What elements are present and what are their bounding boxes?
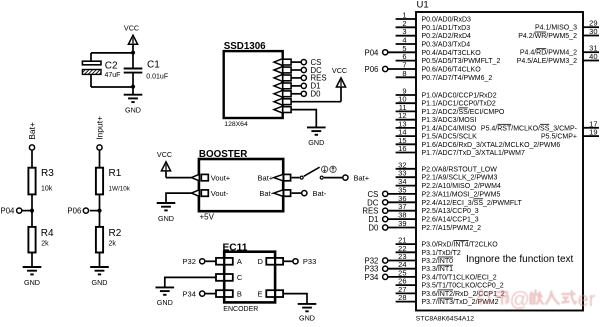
svg-text:er: er [578,289,596,311]
pin 14 P1.5/ADC5/SCLK [396,128,477,141]
svg-text:39: 39 [398,219,406,228]
ground GND (EC11 left) [156,287,175,307]
svg-text:D0: D0 [368,224,379,233]
module BOOSTER box [199,149,283,221]
svg-text:R1: R1 [109,168,122,179]
svg-text:R4: R4 [41,228,54,239]
capacitor C2 [82,60,120,79]
pin 27 P3.6/INT2/RxD_2/CCP1_2 [396,285,505,298]
pin 32 P2.0/A8/RSTOUT_LOW [396,160,498,173]
terminal Input+ [94,116,104,150]
svg-text:ENCODER: ENCODER [223,306,258,313]
display SSD1306 box [224,41,283,128]
svg-text:P4.4/RD/PWM4_2: P4.4/RD/PWM4_2 [520,50,577,57]
svg-text:C2: C2 [105,60,118,71]
svg-text:R2: R2 [109,228,122,239]
pin 4 (SSD1306) [274,82,291,89]
encoder EC11 labels [223,242,259,313]
wire pin C to ground [165,277,216,287]
pin 2 P0.1/AD1/TxD3 [396,19,471,32]
svg-text:E: E [258,289,263,298]
svg-text:U1: U1 [417,0,429,11]
terminal P04 [1,206,22,215]
wire switch to Bat+ terminal [324,177,342,179]
wire rail bottom [91,86,133,88]
net label P04 (U1 side) [365,48,380,57]
pin 6 P0.5/AD5/T3/PWMFLT_2 [396,52,501,65]
terminal P06 [67,206,88,215]
svg-text:128X64: 128X64 [224,121,248,128]
svg-text:GND: GND [299,313,315,322]
terminal P33 [293,257,316,266]
svg-text:VCC: VCC [332,66,347,75]
net label D1 (SSD1306 side) [291,82,320,91]
wire SSD1306 pin7 to GND [291,110,316,128]
net label RES (U1 side) [362,207,378,216]
pin 4 P0.3/AD3/TxD4 [396,36,471,49]
wire Vout- to ground [166,193,193,203]
svg-text:VCC: VCC [124,24,139,33]
wire R1 to node [99,194,101,210]
pin 2 (SSD1306) [274,67,291,74]
svg-text:P1.3/ADC3/MOSI: P1.3/ADC3/MOSI [422,117,477,124]
svg-text:P04: P04 [365,48,380,57]
svg-text:P0.3/AD3/TxD4: P0.3/AD3/TxD4 [422,42,471,49]
pin 35 P2.3/A11/MOSI_2/PWM5 [383,185,501,198]
svg-text:P34: P34 [365,273,380,282]
svg-text:C: C [237,273,243,282]
svg-text:19: 19 [589,128,597,137]
svg-text:40: 40 [589,52,597,61]
note text [466,254,574,265]
pin 6 (SSD1306) [274,98,291,105]
svg-text:P1.7/ADC7/TxD_3/XTAL1/PWM7: P1.7/ADC7/TxD_3/XTAL1/PWM7 [422,150,525,157]
pin 38 P2.6/A14/CCP1_3 [383,211,479,224]
svg-text:Input+: Input+ [94,116,104,140]
pin Bat+ (BOOSTER) [258,173,291,182]
svg-text:R3: R3 [41,168,54,179]
pin Vout+ (BOOSTER) [192,173,231,182]
svg-text:P2.2/A10/MISO_2/PWM4: P2.2/A10/MISO_2/PWM4 [422,183,501,190]
wire C2 top lead [90,53,92,61]
wire Input+ to R1 [99,151,101,168]
wire P32 to pin A [205,260,216,262]
node GND junction [131,85,135,89]
pin 30 P4.2/WR/PWM5_2 [518,27,599,40]
svg-text:+5V: +5V [200,212,215,221]
pin 3 (SSD1306) [274,74,291,81]
svg-text:STC8A8K64S4A12: STC8A8K64S4A12 [416,315,474,322]
svg-text:GND: GND [308,138,324,147]
resistor R2 [96,227,122,253]
pin 10 P1.1/ADC1/CCP0/TxD2 [396,95,496,108]
wire P34 to pin B [205,293,216,295]
resistor R4 [28,227,54,253]
net label P34 (U1 side) [365,273,380,282]
pin 1 P0.0/AD0/RxD3 [396,11,471,24]
svg-text:P1.5/ADC5/SCLK: P1.5/ADC5/SCLK [422,134,478,141]
svg-text:47uF: 47uF [105,72,121,79]
wire VCC to Vout+ [166,177,193,179]
wire C2 bottom lead [90,74,92,87]
net label RES (SSD1306 side) [291,74,326,83]
wire Bat- pin to terminal [292,192,302,194]
svg-text:P0.4/AD4/T3CLKO: P0.4/AD4/T3CLKO [422,50,482,57]
svg-text:P4.1/MISO_3: P4.1/MISO_3 [535,25,577,32]
wire node to R4 [31,211,33,227]
svg-text:P04: P04 [1,206,16,215]
svg-text:P06: P06 [67,206,81,215]
svg-text:P3.4/T0/T1CLKO/ECI_2: P3.4/T0/T1CLKO/ECI_2 [422,274,497,281]
wire pin D to P33 [283,260,292,262]
power VCC (decoupling rail) [124,24,139,53]
wire Bat+ pin to switch [292,177,300,179]
IC U1 part number [416,315,474,322]
svg-text:P0.0/AD0/RxD3: P0.0/AD0/RxD3 [422,17,472,24]
svg-text:P2.3/A11/MOSI_2/PWM5: P2.3/A11/MOSI_2/PWM5 [422,191,501,198]
net label DC (SSD1306 side) [291,66,322,75]
pin 25 P3.4/T0/T1CLKO/ECI_2 [383,268,497,281]
pin 7 (SSD1306) [274,106,291,113]
resistor R3 [28,168,54,195]
pin 33 P2.1/A9/SCLK_2/PWM3 [396,169,498,182]
svg-text:P2.7/A15/PWM2_2: P2.7/A15/PWM2_2 [422,225,482,232]
pin 21 P3.0/RxD/INT4/T2CLKO [396,236,499,249]
terminal P32 [183,257,205,266]
svg-text:Vout+: Vout+ [211,173,231,182]
pin 1 (SSD1306) [274,59,291,66]
svg-text:P32: P32 [183,257,196,266]
pin 5 (SSD1306) [274,90,291,97]
wire R4 to ground [31,253,33,268]
pin 31 P4.4/RD/PWM4_2 [520,44,599,57]
svg-text:30: 30 [589,27,597,36]
svg-text:BOOSTER: BOOSTER [199,149,247,160]
svg-text:GND: GND [157,298,173,307]
net label CS (SSD1306 side) [291,58,321,67]
wire node to R2 [99,211,101,227]
ground GND (SSD1306) [307,127,326,147]
svg-text:P4.5/ALE/PWM3_2: P4.5/ALE/PWM3_2 [517,58,577,65]
svg-text:P0.2/AD2/RxD4: P0.2/AD2/RxD4 [422,33,472,40]
svg-text:P3.5/T1/T0CLKO/CCP0_2: P3.5/T1/T0CLKO/CCP0_2 [422,283,504,290]
terminal Bat+ [27,122,37,150]
wire P04 to node [22,210,32,212]
node P04 junction [30,209,34,213]
pin 26 P3.5/T1/T0CLKO/CCP0_2 [396,277,504,290]
svg-text:10k: 10k [41,186,53,193]
switch SW (power toggle) [300,166,336,179]
pin C (EC11) [216,273,243,282]
svg-text:GND: GND [158,214,174,223]
svg-text:1W/10k: 1W/10k [109,186,131,193]
pin 37 P2.5/A13/CCP0_3 [383,202,479,215]
net label D0 (SSD1306 side) [291,90,321,99]
svg-text:SSD1306: SSD1306 [224,41,266,52]
ground GND (R2) [90,267,109,287]
wire R3 to node [31,194,33,210]
net label DC (U1 side) [367,198,379,207]
svg-text:VCC: VCC [157,150,172,159]
svg-text:EC11: EC11 [223,242,248,253]
pin 19 P5.5/CMP+ [541,128,599,141]
pin 24 P3.3/INT1 [383,260,454,273]
svg-text:P1.1/ADC1/CCP0/TxD2: P1.1/ADC1/CCP0/TxD2 [422,101,496,108]
svg-text:P3.2/INT0: P3.2/INT0 [422,258,454,265]
wire rail top [91,52,133,54]
svg-text:2k: 2k [41,241,49,248]
svg-text:P0.6/AD6/T4CLKO: P0.6/AD6/T4CLKO [422,67,482,74]
pin E (EC11) [258,289,284,298]
pin 23 P3.2/INT0 [383,252,454,265]
svg-text:Bat+: Bat+ [258,173,274,182]
terminal Bat+ (output) [343,173,370,182]
svg-text:Bat+: Bat+ [354,173,370,182]
power VCC (SSD1306) [332,66,347,102]
svg-text:C1: C1 [147,60,160,71]
svg-text:P33: P33 [303,257,316,266]
svg-text:P5.4/RST/MCLKO/SS_3/CMP-: P5.4/RST/MCLKO/SS_3/CMP- [481,125,578,132]
ground GND (R4) [23,267,42,287]
pin 13 P1.4/ADC4/MISO [396,119,477,132]
wire pin E to ground [283,294,307,304]
watermark [478,289,596,311]
pin 17 P5.4/RST/MCLKO/SS_3/CMP- [481,119,599,132]
power VCC (BOOSTER) [157,150,172,178]
svg-text:P4.2/WR/PWM5_2: P4.2/WR/PWM5_2 [518,33,577,40]
svg-text:P2.0/A8/RSTOUT_LOW: P2.0/A8/RSTOUT_LOW [422,166,498,173]
svg-text:P06: P06 [365,65,379,74]
pin B (EC11) [216,289,242,298]
wire SSD1306 pin6 to VCC [291,101,341,103]
pin 8 P0.7/AD7/T4/PWM6_2 [396,69,493,82]
svg-text:P34: P34 [183,289,196,298]
pin Bat- (BOOSTER) [259,189,290,198]
pin 5 P0.4/AD4/T3CLKO [383,44,482,57]
svg-text:P0.1/AD1/TxD3: P0.1/AD1/TxD3 [422,25,471,32]
IC U1 box [416,0,583,310]
svg-text:16: 16 [398,144,406,153]
pin 16 P1.7/ADC7/TxD_3/XTAL1/PWM7 [396,144,525,157]
svg-text:8: 8 [402,69,406,78]
terminal P34 [183,289,205,298]
svg-text:Bat-: Bat- [259,189,273,198]
net label D0 (U1 side) [368,224,379,233]
svg-text:P5.5/CMP+: P5.5/CMP+ [541,134,577,141]
terminal Bat- (output) [302,189,327,198]
svg-text:GND: GND [92,278,108,287]
svg-text:D0: D0 [311,90,322,99]
node rail/C1 junction [131,51,135,55]
svg-text:P0.7/AD7/T4/PWM6_2: P0.7/AD7/T4/PWM6_2 [422,75,493,82]
net label P33 (U1 side) [365,265,379,274]
svg-text:P3.3/INT1: P3.3/INT1 [422,266,454,273]
svg-text:P1.4/ADC4/MISO: P1.4/ADC4/MISO [422,125,477,132]
wire P06 to node [90,210,100,212]
pin Vout- (BOOSTER) [192,189,229,198]
svg-text:P1.6/ADC6/RxD_3/XTAL2/MCLKO_2/: P1.6/ADC6/RxD_3/XTAL2/MCLKO_2/PWM6 [422,142,561,149]
svg-text:@: @ [510,289,530,311]
net label P06 (U1 side) [365,65,379,74]
net label P32 (U1 side) [365,257,379,266]
encoder EC11 box [224,252,275,303]
svg-text:2k: 2k [109,241,117,248]
pin 28 P3.7/INT3/TxD_2/PWM2 [396,293,499,306]
pin 40 P4.5/ALE/PWM3_2 [517,52,599,65]
net label CS (U1 side) [368,190,379,199]
capacitor C1 [124,53,168,87]
ground GND (BOOSTER) [157,203,176,223]
svg-text:Bat-: Bat- [313,189,327,198]
svg-text:P3.1/TxD/T2: P3.1/TxD/T2 [422,250,461,257]
pin 34 P2.2/A10/MISO_2/PWM4 [396,177,501,190]
resistor R1 [96,168,131,195]
pin A (EC11) [216,257,242,266]
pin 39 P2.7/A15/PWM2_2 [383,219,482,232]
svg-text:28: 28 [398,293,406,302]
pin 29 P4.1/MISO_3 [535,19,599,32]
pin 11 P1.2/ADC2/SS/ECI/CMPO [396,103,505,116]
ground GND (EC11 right) [298,304,317,323]
svg-text:P2.4/A12/ECI_3/SS_2/PWMFLT: P2.4/A12/ECI_3/SS_2/PWMFLT [422,200,523,207]
svg-text:GND: GND [24,278,40,287]
svg-text:B: B [237,289,242,298]
svg-text:Bat+: Bat+ [27,122,37,140]
svg-text:P0.5/AD5/T3/PWMFLT_2: P0.5/AD5/T3/PWMFLT_2 [422,58,501,65]
svg-text:Ingnore the function text: Ingnore the function text [466,254,574,265]
pin D (EC11) [258,257,284,266]
svg-text:Vout-: Vout- [211,189,229,198]
svg-text:P2.1/A9/SCLK_2/PWM3: P2.1/A9/SCLK_2/PWM3 [422,175,498,182]
pin 12 P1.3/ADC3/MOSI [396,111,477,124]
net label D1 (U1 side) [368,215,378,224]
wire Bat+ to R3 [31,151,33,168]
wire R2 to ground [99,253,101,268]
svg-text:A: A [237,257,242,266]
svg-text:P2.5/A13/CCP0_3: P2.5/A13/CCP0_3 [422,208,479,215]
svg-text:P1.0/ADC0/CCP1/RxD2: P1.0/ADC0/CCP1/RxD2 [422,93,497,100]
pin 9 P1.0/ADC0/CCP1/RxD2 [396,87,497,100]
svg-text:P1.2/ADC2/SS/ECI/CMPO: P1.2/ADC2/SS/ECI/CMPO [422,109,505,116]
svg-text:P2.6/A14/CCP1_3: P2.6/A14/CCP1_3 [422,217,479,224]
svg-text:GND: GND [125,106,141,115]
ground GND (decoupling) [124,87,143,115]
svg-text:0.01uF: 0.01uF [146,74,168,81]
svg-text:D: D [258,257,264,266]
pin 7 P0.6/AD6/T4CLKO [383,61,482,74]
pin 15 P1.6/ADC6/RxD_3/XTAL2/MCLKO_2/PWM6 [396,136,561,149]
svg-text:P3.0/RxD/INT4/T2CLKO: P3.0/RxD/INT4/T2CLKO [422,242,499,249]
pin 3 P0.2/AD2/RxD4 [396,27,471,40]
pin 22 P3.1/TxD/T2 [396,244,461,257]
node P06 junction [97,209,101,213]
pin 36 P2.4/A12/ECI_3/SS_2/PWMFLT [383,194,523,207]
